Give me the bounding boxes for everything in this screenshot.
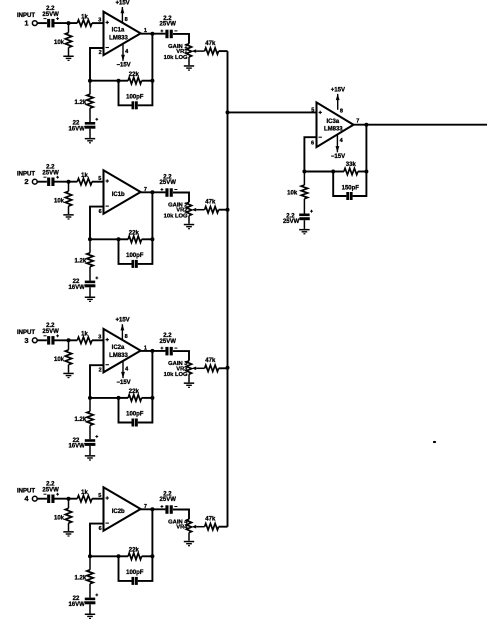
wire input 3 to C3a [37,339,47,341]
-15V supply pin 4 stage 1 [117,44,131,69]
svg-text:7: 7 [356,118,359,124]
capacitor 2.2uF 25VW output coupling stage 4 [160,491,178,513]
svg-text:10k LOG: 10k LOG [164,372,188,378]
potentiometer VR3 gain [164,361,205,383]
capacitor 22uF 16VW stage 4 [68,594,98,614]
pin 5 label (+ input) stage 2 [98,176,101,182]
svg-text:100pF: 100pF [126,570,144,576]
svg-text:LM833: LM833 [109,36,128,42]
svg-text:22k: 22k [129,548,140,554]
junction 22k/100pF left stage 2 [117,237,121,241]
wire C to gain pot stage 1 [173,34,189,44]
pin 6 label (- input) IC3a [311,141,314,147]
svg-text:8: 8 [340,108,343,114]
junction bus / stage 2 [226,208,230,212]
capacitor 2.2uF 25VW output coupling stage 3 [160,333,178,355]
svg-text:6: 6 [99,209,102,215]
wire op-amp output stage 1 with junction [141,32,166,36]
-15V supply pin 4 IC3a [331,135,345,160]
wire output to feedback stage 1 [151,34,153,81]
svg-text:8: 8 [125,17,128,23]
feedback node junction stage 4 [88,554,92,558]
capacitor 2.2uF 25VW input coupling stage 3 [42,323,59,345]
ground below 22uF stage 3 [85,455,95,461]
capacitor 150pF feedback IC3a [333,172,366,201]
junction 22k/100pF left stage 1 [117,79,121,83]
input terminal INPUT 2 [17,172,37,187]
pin 8 label IC3a [340,108,343,114]
op-amp IC1a LM833 [104,12,141,55]
node IC3a feedback junction [302,170,306,174]
svg-text:100pF: 100pF [126,95,144,101]
resistor 47k mix stage 4 [205,517,228,530]
svg-text:25VW: 25VW [42,12,59,18]
wire C to node stage 2 with junction [55,180,78,184]
wire 1k to op-amp +input stage 1 [92,22,104,24]
svg-text:1k: 1k [81,173,88,179]
resistor 1k series stage 3 [77,332,92,344]
capacitor 2.2uF 25VW IC3a ground leg [283,210,313,229]
capacitor 100pF feedback stage 2 [119,239,153,268]
wire mixing bus vertical [227,51,229,527]
svg-text:100pF: 100pF [126,253,144,259]
ground below VR3 [184,382,194,388]
junction 22k/100pF right stage 3 [150,396,154,400]
feedback node junction stage 3 [88,396,92,400]
resistor 10k input bias stage 1 [54,23,72,55]
capacitor 100pF feedback stage 4 [119,556,153,585]
resistor 47k mix stage 3 [205,358,228,371]
resistor 22k feedback stage 3 [119,389,153,401]
svg-text:2.2: 2.2 [46,323,55,329]
svg-text:47k: 47k [205,200,216,206]
svg-text:22k: 22k [129,231,140,237]
capacitor 2.2uF 25VW input coupling stage 2 [42,164,59,186]
pin 3 label (+ input) stage 1 [98,17,101,23]
wire feedback rail stage 3 [90,397,119,399]
capacitor 22uF 16VW stage 1 [68,118,98,138]
svg-text:IC3a: IC3a [326,119,339,125]
pin 7 label (output) IC3a [356,118,359,124]
svg-text:3: 3 [98,335,101,341]
svg-text:−15V: −15V [331,154,345,160]
svg-text:IC2b: IC2b [112,509,125,515]
svg-text:22k: 22k [129,389,140,395]
junction bus / stage 3 [226,366,230,370]
pin 6 label (- input) stage 4 [99,526,102,532]
pin 5 label (+ input) stage 4 [98,493,101,499]
resistor 47k mix stage 2 [205,200,228,213]
svg-text:IC2a: IC2a [112,345,125,351]
svg-text:1: 1 [24,19,28,28]
feedback node junction stage 2 [88,237,92,241]
capacitor 100pF feedback stage 3 [119,398,153,427]
resistor 1.2k stage 1 [75,81,94,122]
svg-text:10k: 10k [54,40,65,46]
pin 3 label (+ input) stage 3 [98,335,101,341]
svg-text:−15V: −15V [117,63,131,69]
resistor 1k series stage 4 [77,490,92,502]
svg-text:1.2k: 1.2k [75,258,87,264]
resistor 1.2k stage 2 [75,239,94,280]
svg-text:+15V: +15V [116,318,130,324]
wire -input to feedback node stage 2 [90,207,104,240]
wire IC3a output to feedback [365,125,367,172]
svg-text:47k: 47k [205,358,216,364]
input terminal INPUT 3 [17,330,37,345]
-15V supply pin 4 stage 3 [117,361,131,386]
svg-text:6: 6 [311,141,314,147]
svg-text:10k: 10k [54,357,65,363]
ground below VR4 [184,541,194,547]
svg-text:+15V: +15V [116,0,130,6]
ground below 10k stage 4 [63,531,73,537]
wire 1k to op-amp +input stage 3 [92,339,104,341]
svg-text:16VW: 16VW [68,285,85,291]
wire C to gain pot stage 4 [173,510,189,520]
capacitor 100pF feedback stage 1 [119,81,153,110]
svg-text:10k: 10k [54,516,65,522]
resistor 10k input bias stage 2 [54,182,72,214]
feedback node junction stage 1 [88,79,92,83]
resistor 10k input bias stage 3 [54,340,72,372]
resistor 10k IC3a ground leg [287,172,307,214]
wire feedback rail stage 2 [90,238,119,240]
svg-text:150pF: 150pF [342,185,360,191]
op-amp IC2b [104,487,141,530]
wire C to gain pot stage 2 [173,193,189,203]
svg-text:47k: 47k [205,517,216,523]
junction 22k/100pF right stage 2 [150,237,154,241]
svg-text:25VW: 25VW [42,171,59,177]
ground below 22uF stage 4 [85,614,95,620]
potentiometer VR1 gain [164,44,205,66]
svg-text:2.2: 2.2 [46,164,55,170]
capacitor 22uF 16VW stage 3 [68,435,98,455]
svg-text:4: 4 [125,49,129,55]
capacitor 22uF 16VW stage 2 [68,277,98,297]
svg-text:25VW: 25VW [42,488,59,494]
junction 22k/100pF right stage 1 [150,79,154,83]
svg-text:2.2: 2.2 [46,481,55,487]
svg-text:25VW: 25VW [160,339,177,345]
svg-text:VR4: VR4 [176,525,188,531]
svg-text:25VW: 25VW [160,497,177,503]
svg-text:2.2: 2.2 [46,6,55,12]
resistor 1.2k stage 4 [75,556,94,597]
svg-text:5: 5 [311,108,314,114]
svg-text:1.2k: 1.2k [75,575,87,581]
op-amp IC1b [104,170,141,213]
wire C to gain pot stage 3 [173,351,189,361]
wire -input to feedback node stage 3 [90,365,104,398]
resistor 22k feedback stage 2 [119,231,153,243]
wire op-amp output stage 4 with junction [141,507,166,511]
pin 1 label (output) stage 1 [144,28,147,34]
resistor 22k feedback stage 1 [119,72,153,84]
capacitor 2.2uF 25VW input coupling stage 1 [42,6,59,28]
junction 33k/150pF left [331,170,335,174]
op-amp IC3a LM833 summing amplifier [317,102,354,147]
svg-text:+15V: +15V [331,87,345,93]
svg-text:10k: 10k [54,199,65,205]
svg-text:1k: 1k [81,332,88,338]
svg-text:25VW: 25VW [283,219,300,225]
svg-text:16VW: 16VW [68,602,85,608]
svg-text:4: 4 [125,366,129,372]
potentiometer VR2 gain [164,202,205,224]
wire feedback rail stage 4 [90,555,119,557]
potentiometer VR4 gain [168,519,204,541]
wire bus to IC3a +input [228,111,317,113]
svg-text:2: 2 [99,50,102,56]
ground below VR1 [184,65,194,71]
wire C to node stage 4 with junction [55,497,78,501]
wire IC3a output with junction [354,123,487,127]
svg-text:100pF: 100pF [126,412,144,418]
svg-text:1k: 1k [81,14,88,20]
input terminal INPUT 1 [17,13,37,28]
ground below VR2 [184,224,194,230]
svg-text:LM833: LM833 [109,353,128,359]
svg-text:4: 4 [340,138,344,144]
junction 22k/100pF right stage 4 [150,554,154,558]
wire -input to feedback node stage 4 [90,524,104,557]
svg-text:25VW: 25VW [160,180,177,186]
wire op-amp output stage 3 with junction [141,349,166,353]
pin 4 label stage 1 [125,49,129,55]
svg-text:IC1a: IC1a [112,28,125,34]
svg-text:1.2k: 1.2k [75,100,87,106]
ground below 22uF stage 1 [85,138,95,144]
svg-text:1.2k: 1.2k [75,417,87,423]
pin 5 label (+ input) IC3a [311,108,314,114]
ground below 10k stage 1 [63,56,73,62]
ground below 22uF stage 2 [85,297,95,303]
svg-text:25VW: 25VW [160,22,177,28]
svg-text:16VW: 16VW [68,126,85,132]
svg-text:−15V: −15V [117,380,131,386]
capacitor 2.2uF 25VW input coupling stage 4 [42,481,59,503]
wire input 4 to C4a [37,498,47,500]
resistor 22k feedback stage 4 [119,548,153,560]
pin 6 label (- input) stage 2 [99,209,102,215]
svg-text:5: 5 [98,176,101,182]
wire C to node stage 1 with junction [55,21,78,25]
svg-text:IC1b: IC1b [112,192,125,198]
wire feedback rail IC3a [304,171,333,173]
wire 1k to op-amp +input stage 4 [92,498,104,500]
ground below 10k stage 3 [63,373,73,379]
wire input 2 to C2a [37,181,47,183]
resistor 47k mix stage 1 [205,41,228,54]
wire 1k to op-amp +input stage 2 [92,181,104,183]
pin 7 label (output) stage 2 [144,187,147,193]
wire C to node stage 3 with junction [55,338,78,342]
svg-text:10k LOG: 10k LOG [164,214,188,220]
svg-text:47k: 47k [205,41,216,47]
svg-text:10k LOG: 10k LOG [164,55,188,61]
wire output to feedback stage 2 [151,192,153,239]
wire output to feedback stage 3 [151,351,153,398]
pin 8 label stage 3 [125,334,128,340]
pin 4 label stage 3 [125,366,129,372]
stray print dot [433,441,436,443]
junction bus / IC3a feed [226,110,230,114]
resistor 33k feedback IC3a [333,162,366,175]
+15V supply pin 8 stage 1 [116,0,130,23]
wire feedback rail stage 1 [90,80,119,82]
junction 22k/100pF left stage 3 [117,396,121,400]
svg-text:LM833: LM833 [324,127,343,133]
ground below IC3a 2.2uF [299,229,309,235]
capacitor 2.2uF 25VW output coupling stage 1 [160,16,178,38]
pin 2 label (- input) stage 1 [99,50,102,56]
svg-text:25VW: 25VW [42,329,59,335]
svg-text:2: 2 [24,177,28,186]
svg-text:16VW: 16VW [68,444,85,450]
+15V supply pin 8 IC3a [331,87,345,110]
junction 22k/100pF left stage 4 [117,554,121,558]
resistor 10k input bias stage 4 [54,499,72,531]
pin 4 label IC3a [340,138,344,144]
input terminal INPUT 4 [17,489,37,504]
svg-text:8: 8 [125,334,128,340]
wire output to feedback stage 4 [151,509,153,556]
svg-text:22k: 22k [129,72,140,78]
resistor 1.2k stage 3 [75,398,94,439]
svg-text:4: 4 [24,494,29,503]
op-amp IC2a LM833 [104,329,141,372]
svg-text:3: 3 [24,336,28,345]
wire op-amp output stage 2 with junction [141,190,166,194]
+15V supply pin 8 stage 3 [116,318,130,341]
wire -input to feedback node stage 1 [90,48,104,81]
pin 7 label (output) stage 4 [144,504,147,510]
svg-text:33k: 33k [346,162,357,168]
pin 8 label stage 1 [125,17,128,23]
resistor 1k series stage 2 [77,173,92,185]
svg-text:3: 3 [98,17,101,23]
wire input 1 to C1a [37,22,47,24]
resistor 1k series stage 1 [77,14,92,26]
svg-text:6: 6 [99,526,102,532]
svg-text:10k: 10k [287,190,298,196]
wire IC3a -input to feedback node [304,137,316,171]
svg-text:2: 2 [99,367,102,373]
ground below 10k stage 2 [63,214,73,219]
svg-text:5: 5 [98,493,101,499]
capacitor 2.2uF 25VW output coupling stage 2 [160,174,178,196]
junction 33k/150pF right [364,170,368,174]
pin 2 label (- input) stage 3 [99,367,102,373]
pin 1 label (output) stage 3 [144,345,147,351]
svg-text:1k: 1k [81,490,88,496]
